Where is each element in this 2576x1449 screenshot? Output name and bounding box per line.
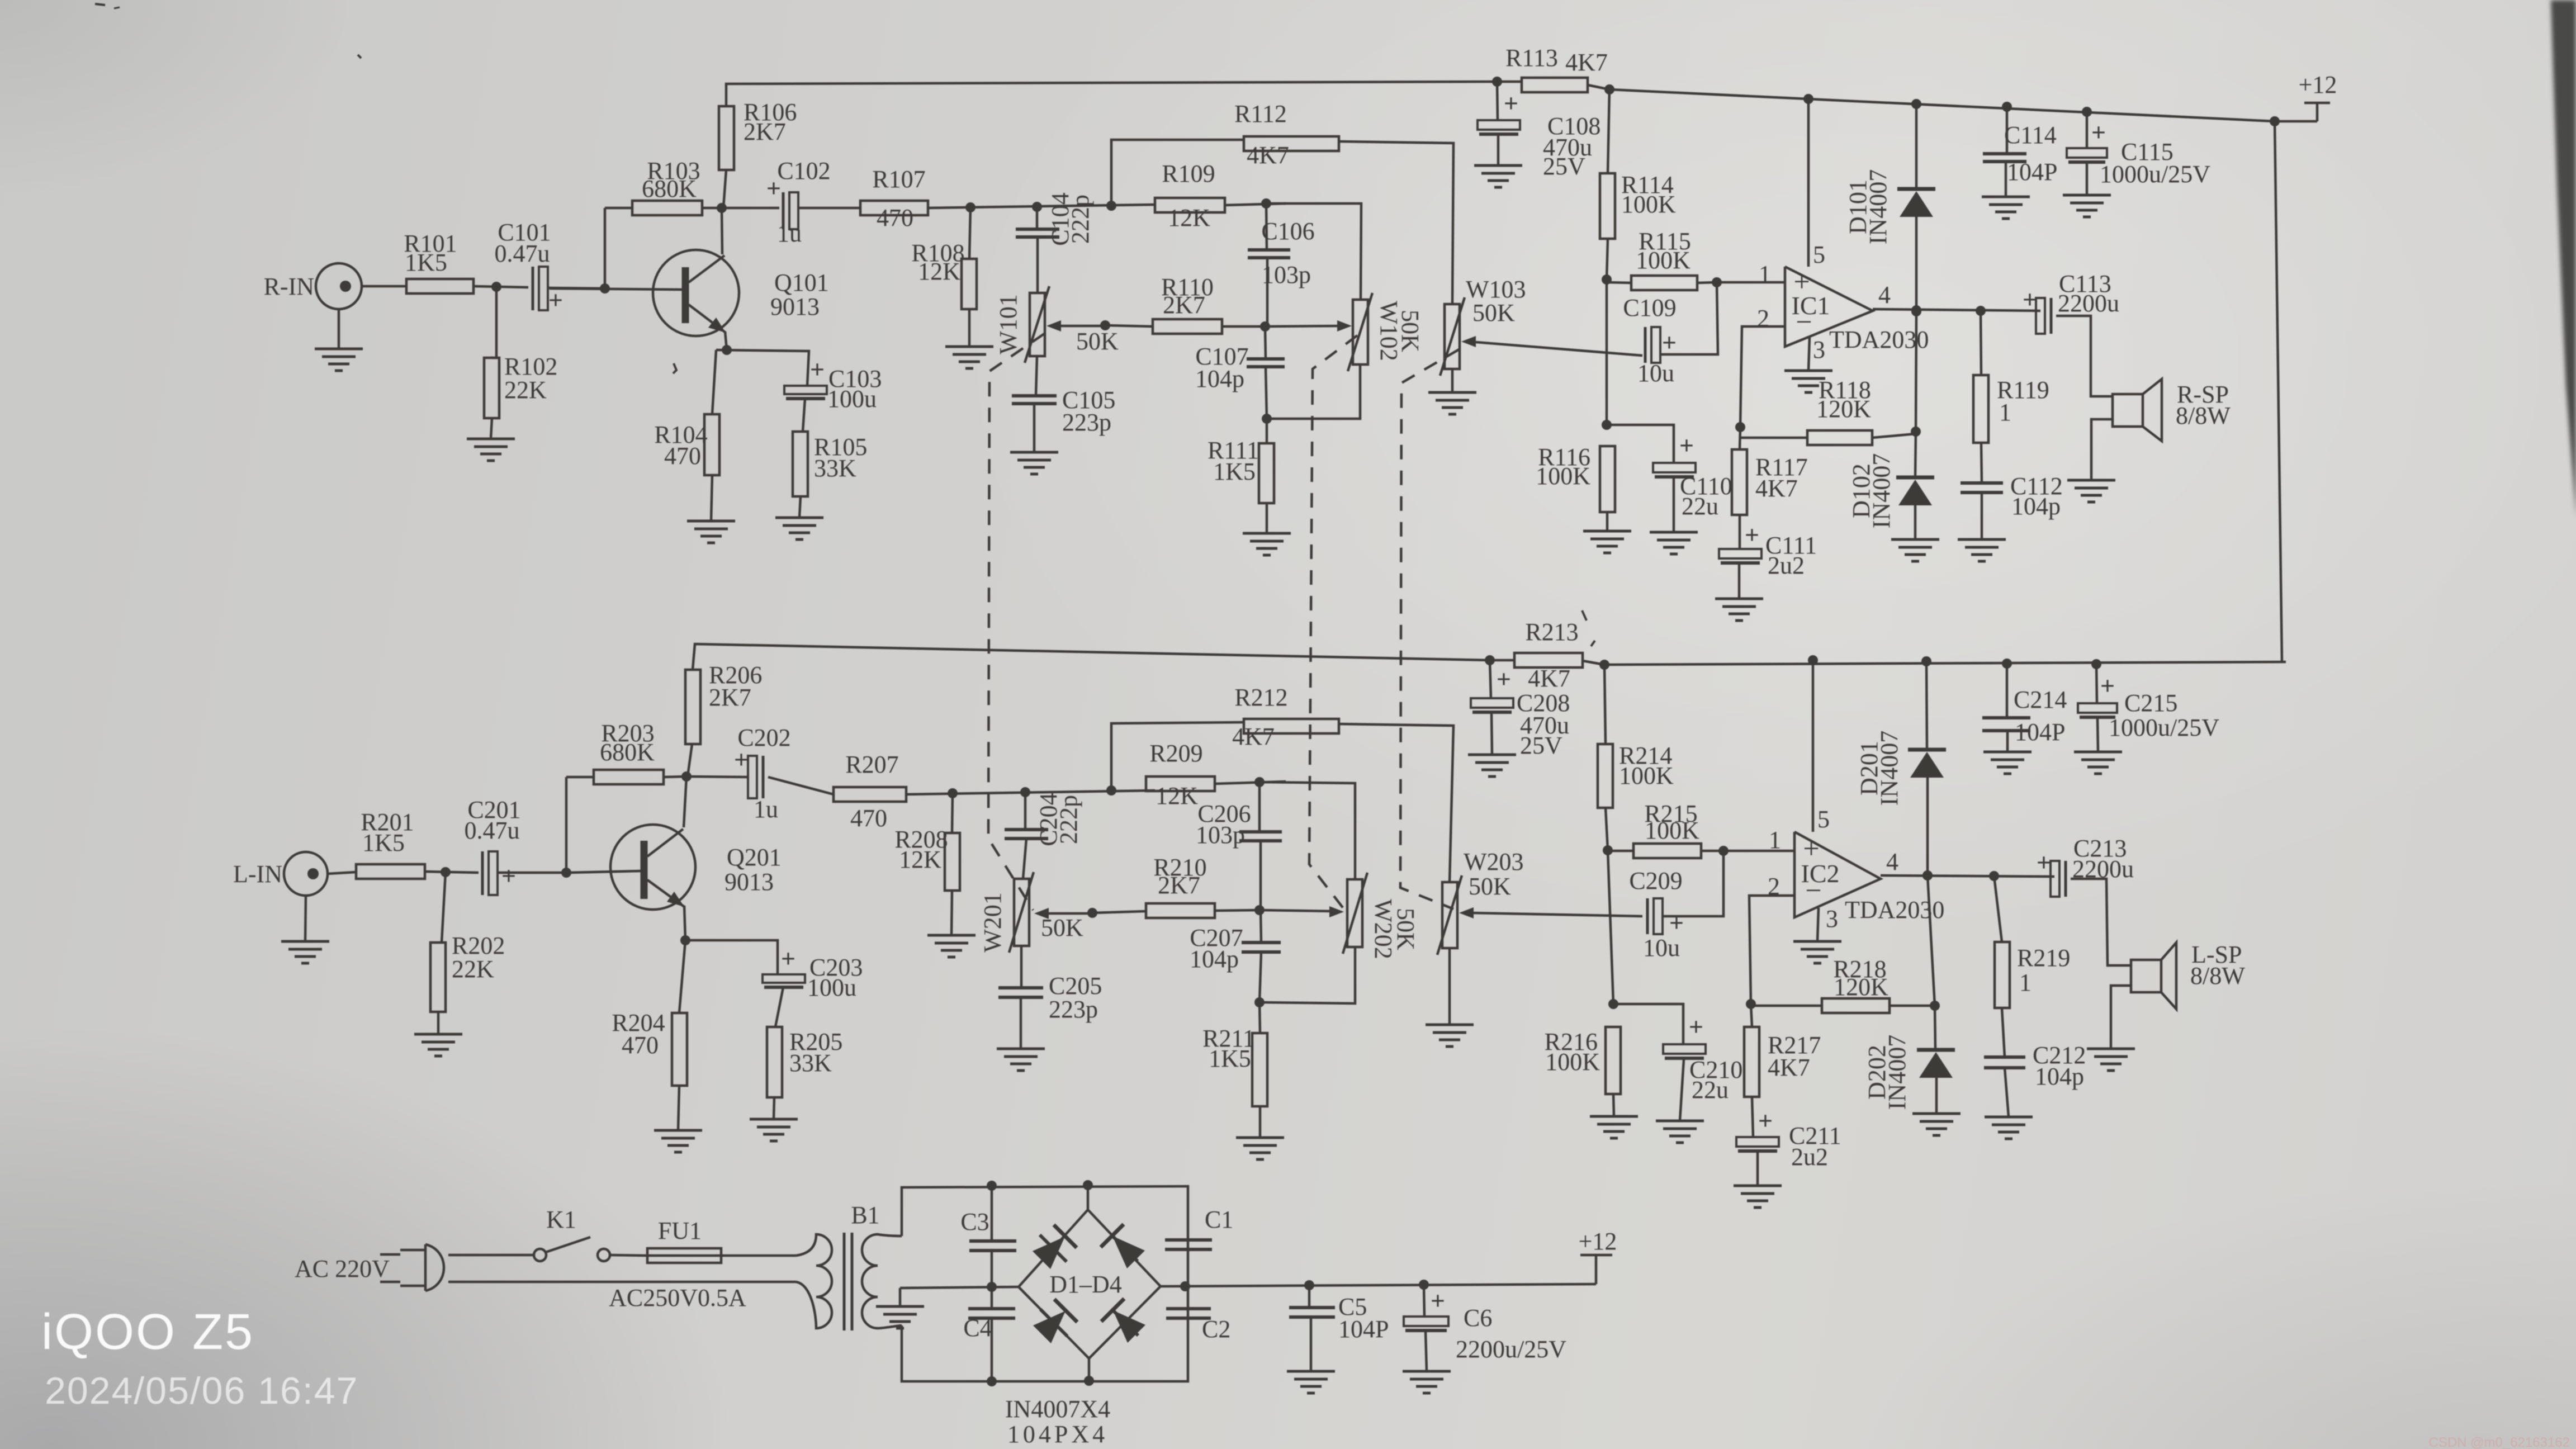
- svg-text:1: 1: [2019, 969, 2032, 996]
- svg-text:1K5: 1K5: [1213, 458, 1256, 485]
- svg-text:100K: 100K: [1536, 462, 1590, 490]
- svg-text:C3: C3: [960, 1208, 989, 1235]
- svg-text:10u: 10u: [1637, 359, 1674, 387]
- svg-text:+: +: [1497, 665, 1511, 693]
- svg-text:1000u/25V: 1000u/25V: [2100, 160, 2210, 188]
- svg-text:8/8W: 8/8W: [2190, 962, 2245, 989]
- svg-text:12K: 12K: [1156, 782, 1198, 809]
- svg-text:4K7: 4K7: [1528, 665, 1570, 692]
- svg-text:1: 1: [1999, 399, 2011, 426]
- svg-text:223p: 223p: [1062, 409, 1111, 436]
- svg-text:+: +: [1662, 328, 1677, 357]
- svg-text:CSDN @m0_62163162: CSDN @m0_62163162: [2428, 1435, 2570, 1449]
- svg-text:9013: 9013: [770, 293, 820, 320]
- svg-text:1K5: 1K5: [362, 829, 405, 856]
- svg-text:4: 4: [1878, 281, 1891, 309]
- svg-text:1: 1: [1769, 826, 1781, 854]
- svg-text:K1: K1: [546, 1206, 576, 1233]
- svg-text:C102: C102: [777, 157, 830, 184]
- svg-text:+: +: [2091, 118, 2106, 146]
- svg-text:AC 220V: AC 220V: [295, 1255, 390, 1282]
- svg-text:104P: 104P: [2007, 158, 2057, 186]
- svg-text:W203: W203: [1464, 848, 1524, 875]
- svg-text:L-IN: L-IN: [233, 860, 282, 888]
- svg-text:104p: 104p: [1195, 365, 1244, 392]
- svg-text:IN4007: IN4007: [1876, 731, 1903, 806]
- svg-text:IN4007X4: IN4007X4: [1005, 1395, 1110, 1423]
- svg-text:+: +: [1689, 1012, 1703, 1041]
- svg-text:Q101: Q101: [774, 269, 829, 296]
- svg-text:680K: 680K: [600, 738, 655, 766]
- svg-text:104P: 104P: [1338, 1315, 1389, 1343]
- svg-text:4K7: 4K7: [1232, 723, 1275, 750]
- svg-text:0.47u: 0.47u: [465, 817, 520, 844]
- svg-text:R212: R212: [1234, 684, 1287, 711]
- svg-text:C215: C215: [2124, 689, 2177, 717]
- svg-text:104p: 104p: [2035, 1063, 2084, 1090]
- svg-text:100u: 100u: [827, 385, 877, 413]
- svg-text:C6: C6: [1464, 1304, 1492, 1332]
- svg-text:33K: 33K: [789, 1049, 832, 1077]
- svg-text:D1–D4: D1–D4: [1049, 1271, 1122, 1298]
- svg-text:+: +: [1758, 1106, 1773, 1135]
- svg-text:C106: C106: [1261, 217, 1314, 245]
- svg-text:+: +: [1669, 908, 1684, 937]
- svg-text:0.47u: 0.47u: [495, 240, 550, 267]
- svg-text:22u: 22u: [1692, 1076, 1729, 1104]
- svg-text:120K: 120K: [1816, 395, 1871, 423]
- svg-text:4K7: 4K7: [1247, 141, 1289, 169]
- svg-text:22K: 22K: [452, 955, 494, 983]
- svg-text:2K7: 2K7: [1158, 872, 1200, 899]
- svg-text:22u: 22u: [1682, 493, 1718, 520]
- svg-text:470: 470: [622, 1031, 659, 1059]
- svg-text:50K: 50K: [1472, 299, 1515, 326]
- svg-text:100K: 100K: [1621, 191, 1676, 218]
- svg-text:1K5: 1K5: [1209, 1045, 1251, 1072]
- svg-text:50K: 50K: [1392, 908, 1419, 950]
- svg-text:W101: W101: [995, 294, 1022, 354]
- svg-text:4K7: 4K7: [1768, 1054, 1810, 1081]
- svg-text:+: +: [810, 355, 825, 383]
- svg-text:B1: B1: [851, 1201, 879, 1229]
- svg-text:R107: R107: [872, 165, 925, 193]
- svg-text:22K: 22K: [504, 376, 547, 404]
- svg-text:470: 470: [664, 442, 701, 470]
- svg-text:C4: C4: [963, 1314, 992, 1342]
- svg-text:+: +: [2100, 671, 2115, 700]
- svg-text:4: 4: [1886, 848, 1898, 875]
- svg-text:12K: 12K: [1168, 204, 1210, 231]
- svg-text:FU1: FU1: [658, 1217, 702, 1244]
- svg-text:2: 2: [1757, 305, 1769, 332]
- svg-text:AC250V0.5A: AC250V0.5A: [609, 1284, 746, 1311]
- svg-text:TDA2030: TDA2030: [1829, 326, 1929, 353]
- svg-text:C2: C2: [1202, 1315, 1230, 1343]
- svg-text:1K5: 1K5: [405, 249, 447, 276]
- svg-text:4K7: 4K7: [1755, 475, 1798, 502]
- svg-text:C114: C114: [2004, 121, 2057, 149]
- svg-text:50K: 50K: [1396, 310, 1424, 352]
- svg-text:25V: 25V: [1520, 732, 1562, 759]
- svg-text:5: 5: [1813, 241, 1825, 268]
- svg-text:R109: R109: [1162, 160, 1215, 187]
- svg-text:C1: C1: [1205, 1206, 1233, 1233]
- svg-text:C214: C214: [2014, 686, 2067, 713]
- svg-text:100K: 100K: [1619, 762, 1674, 789]
- svg-text:223p: 223p: [1049, 996, 1098, 1023]
- svg-text:103p: 103p: [1262, 261, 1311, 288]
- svg-text:12K: 12K: [899, 846, 941, 873]
- svg-text:222p: 222p: [1055, 795, 1082, 844]
- svg-text:Q201: Q201: [727, 844, 782, 871]
- svg-text:100K: 100K: [1545, 1048, 1600, 1076]
- svg-text:R113: R113: [1505, 44, 1558, 72]
- svg-text:+: +: [2037, 848, 2051, 877]
- svg-text:100u: 100u: [807, 974, 856, 1001]
- svg-text:+: +: [548, 286, 563, 314]
- svg-text:IN4007: IN4007: [1868, 453, 1895, 528]
- svg-text:12K: 12K: [918, 258, 960, 285]
- svg-text:2024/05/06 16:47: 2024/05/06 16:47: [45, 1370, 358, 1412]
- svg-text:W201: W201: [979, 892, 1006, 953]
- svg-text:2200u/25V: 2200u/25V: [1456, 1336, 1566, 1363]
- svg-text:+: +: [501, 861, 516, 890]
- svg-text:1u: 1u: [777, 220, 802, 247]
- svg-text:4K7: 4K7: [1565, 49, 1608, 76]
- svg-text:470: 470: [877, 204, 913, 231]
- svg-text:2K7: 2K7: [1163, 291, 1205, 319]
- svg-text:9013: 9013: [724, 868, 774, 896]
- svg-text:+: +: [1745, 520, 1759, 549]
- svg-text:3: 3: [1813, 336, 1825, 363]
- svg-text:R219: R219: [2017, 944, 2070, 972]
- svg-text:R-IN: R-IN: [264, 273, 314, 300]
- svg-text:R209: R209: [1149, 740, 1202, 767]
- svg-text:8/8W: 8/8W: [2176, 402, 2231, 429]
- svg-text:104PX4: 104PX4: [1007, 1420, 1108, 1448]
- svg-text:IC1: IC1: [1792, 291, 1830, 320]
- svg-text:1: 1: [1759, 261, 1771, 288]
- svg-text:2K7: 2K7: [709, 684, 751, 711]
- svg-text:IC2: IC2: [1801, 859, 1840, 888]
- svg-text:680K: 680K: [642, 175, 697, 202]
- svg-text:R213: R213: [1525, 618, 1578, 646]
- svg-text:104p: 104p: [2011, 493, 2061, 520]
- svg-text:25V: 25V: [1543, 153, 1585, 180]
- svg-text:C202: C202: [737, 724, 790, 751]
- svg-text:2u2: 2u2: [1791, 1143, 1828, 1171]
- svg-text:50K: 50K: [1076, 328, 1119, 355]
- svg-text:3: 3: [1826, 905, 1838, 932]
- svg-text:50K: 50K: [1041, 914, 1083, 941]
- svg-text:100K: 100K: [1645, 817, 1699, 844]
- svg-text:50K: 50K: [1469, 873, 1511, 900]
- svg-text:+: +: [781, 944, 795, 973]
- svg-text:+: +: [1679, 431, 1694, 460]
- svg-text:+: +: [1431, 1286, 1445, 1315]
- svg-text:C109: C109: [1623, 294, 1676, 321]
- svg-text:iQOO Z5: iQOO Z5: [41, 1304, 254, 1360]
- svg-text:+: +: [2023, 285, 2037, 314]
- svg-text:222p: 222p: [1067, 195, 1094, 244]
- svg-text:IN4007: IN4007: [1864, 169, 1892, 244]
- svg-text:R112: R112: [1234, 100, 1287, 127]
- svg-text:470: 470: [850, 804, 887, 832]
- svg-text:120K: 120K: [1834, 973, 1888, 1001]
- svg-text:104p: 104p: [1190, 945, 1239, 973]
- svg-text:2200u: 2200u: [2058, 290, 2119, 317]
- svg-text:IN4007: IN4007: [1883, 1035, 1911, 1110]
- svg-text:1u: 1u: [754, 795, 778, 823]
- svg-text:2u2: 2u2: [1768, 552, 1805, 579]
- svg-text:103p: 103p: [1196, 821, 1245, 849]
- svg-text:104P: 104P: [2015, 718, 2065, 746]
- svg-text:2K7: 2K7: [744, 118, 786, 145]
- svg-text:R207: R207: [845, 751, 898, 778]
- svg-text:10u: 10u: [1643, 934, 1680, 962]
- svg-text:5: 5: [1817, 806, 1830, 833]
- svg-text:C209: C209: [1629, 867, 1682, 894]
- svg-text:+12: +12: [2299, 71, 2337, 98]
- svg-text:33K: 33K: [814, 454, 856, 482]
- svg-text:+: +: [1504, 89, 1518, 117]
- svg-text:100K: 100K: [1636, 247, 1690, 274]
- svg-text:+12: +12: [1579, 1228, 1617, 1255]
- svg-text:1000u/25V: 1000u/25V: [2109, 714, 2219, 741]
